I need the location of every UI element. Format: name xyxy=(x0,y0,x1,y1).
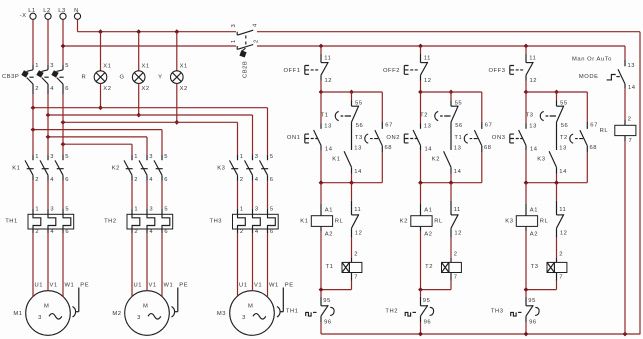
svg-text:U1: U1 xyxy=(239,283,248,289)
svg-text:3: 3 xyxy=(137,315,141,321)
svg-text:14: 14 xyxy=(628,85,636,91)
svg-text:2: 2 xyxy=(628,117,632,123)
svg-text:T2: T2 xyxy=(420,113,428,119)
svg-text:K1: K1 xyxy=(300,218,308,224)
svg-text:95: 95 xyxy=(423,298,431,304)
svg-text:Man Or AuTo: Man Or AuTo xyxy=(572,57,612,63)
svg-text:2: 2 xyxy=(454,252,458,258)
svg-text:T1: T1 xyxy=(321,113,329,119)
svg-text:X2: X2 xyxy=(180,86,188,92)
svg-text:PE: PE xyxy=(179,283,188,289)
svg-text:1: 1 xyxy=(35,154,39,160)
svg-text:K3: K3 xyxy=(537,156,545,162)
svg-text:6: 6 xyxy=(270,177,274,183)
svg-text:56: 56 xyxy=(356,123,364,129)
svg-text:11: 11 xyxy=(354,207,361,213)
svg-text:5: 5 xyxy=(164,207,168,213)
svg-text:2: 2 xyxy=(240,177,244,183)
svg-text:13: 13 xyxy=(324,124,332,130)
svg-text:A1: A1 xyxy=(325,207,333,213)
svg-text:V1: V1 xyxy=(50,283,58,289)
svg-text:K3: K3 xyxy=(217,166,225,172)
svg-text:A2: A2 xyxy=(530,232,538,238)
svg-text:4: 4 xyxy=(50,177,54,183)
svg-text:A2: A2 xyxy=(424,232,432,238)
svg-text:TH1: TH1 xyxy=(286,309,299,315)
svg-text:96: 96 xyxy=(424,320,432,326)
svg-text:ON1: ON1 xyxy=(287,135,301,141)
svg-text:12: 12 xyxy=(560,231,568,237)
svg-text:95: 95 xyxy=(528,298,536,304)
svg-text:1: 1 xyxy=(240,207,244,213)
svg-text:12: 12 xyxy=(424,78,432,84)
svg-text:11: 11 xyxy=(424,56,431,62)
svg-text:3: 3 xyxy=(50,63,54,69)
svg-text:CB3P: CB3P xyxy=(2,74,19,80)
svg-text:RL: RL xyxy=(540,218,549,224)
svg-text:67: 67 xyxy=(590,123,598,129)
svg-text:CB2B: CB2B xyxy=(242,61,248,78)
svg-text:2: 2 xyxy=(35,229,39,235)
svg-text:1: 1 xyxy=(134,207,138,213)
svg-text:12: 12 xyxy=(530,78,538,84)
svg-text:K2: K2 xyxy=(400,218,408,224)
svg-text:14: 14 xyxy=(354,169,362,175)
svg-text:A2: A2 xyxy=(325,232,333,238)
svg-text:11: 11 xyxy=(454,207,461,213)
svg-text:ON3: ON3 xyxy=(492,135,506,141)
svg-text:4: 4 xyxy=(149,229,153,235)
svg-text:U1: U1 xyxy=(35,283,44,289)
svg-text:3: 3 xyxy=(242,315,246,321)
svg-text:X1: X1 xyxy=(103,64,111,70)
svg-text:TH1: TH1 xyxy=(5,218,18,224)
svg-text:7: 7 xyxy=(629,138,633,144)
svg-text:11: 11 xyxy=(324,56,331,62)
svg-text:1: 1 xyxy=(240,154,244,160)
svg-text:N: N xyxy=(74,8,79,14)
svg-text:14: 14 xyxy=(530,147,538,153)
svg-text:3: 3 xyxy=(255,154,259,160)
svg-text:67: 67 xyxy=(485,123,493,129)
svg-text:2: 2 xyxy=(134,229,138,235)
svg-text:L2: L2 xyxy=(43,8,51,14)
svg-text:13: 13 xyxy=(424,124,432,130)
svg-text:12: 12 xyxy=(454,231,462,237)
svg-text:A1: A1 xyxy=(530,207,538,213)
svg-text:M: M xyxy=(44,304,49,310)
svg-text:68: 68 xyxy=(484,145,492,151)
svg-text:ON2: ON2 xyxy=(386,135,400,141)
svg-text:R: R xyxy=(82,75,87,81)
svg-text:U1: U1 xyxy=(134,283,143,289)
svg-text:2: 2 xyxy=(354,252,358,258)
svg-text:7: 7 xyxy=(559,275,563,281)
svg-text:1: 1 xyxy=(231,39,237,43)
svg-text:4: 4 xyxy=(252,23,258,27)
svg-text:OFF3: OFF3 xyxy=(488,68,505,74)
svg-text:7: 7 xyxy=(454,275,458,281)
svg-text:OFF1: OFF1 xyxy=(283,68,300,74)
svg-text:T3: T3 xyxy=(355,135,363,141)
svg-text:13: 13 xyxy=(529,124,537,130)
svg-text:14: 14 xyxy=(425,147,433,153)
svg-text:K2: K2 xyxy=(432,156,440,162)
svg-text:95: 95 xyxy=(323,298,331,304)
svg-text:X2: X2 xyxy=(142,86,150,92)
svg-text:2: 2 xyxy=(240,229,244,235)
svg-text:14: 14 xyxy=(325,147,333,153)
svg-text:1: 1 xyxy=(35,63,39,69)
svg-text:4: 4 xyxy=(255,229,259,235)
svg-text:6: 6 xyxy=(65,229,69,235)
svg-text:4: 4 xyxy=(50,229,54,235)
svg-text:V1: V1 xyxy=(254,283,262,289)
svg-text:TH2: TH2 xyxy=(104,218,117,224)
svg-text:2: 2 xyxy=(35,86,39,92)
svg-text:K1: K1 xyxy=(12,166,20,172)
svg-text:RL: RL xyxy=(335,218,344,224)
svg-text:13: 13 xyxy=(559,146,567,152)
svg-text:3: 3 xyxy=(149,154,153,160)
svg-text:RL: RL xyxy=(600,128,609,134)
svg-text:5: 5 xyxy=(65,207,69,213)
svg-text:1: 1 xyxy=(134,154,138,160)
svg-text:A1: A1 xyxy=(424,207,432,213)
svg-text:K1: K1 xyxy=(332,156,340,162)
svg-text:T1: T1 xyxy=(326,264,334,270)
svg-text:2: 2 xyxy=(559,252,563,258)
svg-text:5: 5 xyxy=(270,154,274,160)
svg-text:13: 13 xyxy=(628,63,636,69)
svg-text:5: 5 xyxy=(270,207,274,213)
svg-text:3: 3 xyxy=(50,154,54,160)
svg-text:6: 6 xyxy=(164,229,168,235)
svg-text:K3: K3 xyxy=(505,218,513,224)
svg-text:2: 2 xyxy=(254,39,260,43)
svg-text:68: 68 xyxy=(385,145,393,151)
svg-text:G: G xyxy=(119,75,124,81)
svg-text:6: 6 xyxy=(270,229,274,235)
svg-text:T2: T2 xyxy=(425,264,433,270)
svg-text:X1: X1 xyxy=(180,64,188,70)
svg-text:12: 12 xyxy=(355,231,363,237)
svg-text:OFF2: OFF2 xyxy=(383,68,400,74)
svg-text:K2: K2 xyxy=(112,166,120,172)
svg-text:Y: Y xyxy=(158,75,162,81)
svg-text:13: 13 xyxy=(354,146,362,152)
svg-text:2: 2 xyxy=(35,177,39,183)
svg-text:6: 6 xyxy=(65,177,69,183)
svg-text:5: 5 xyxy=(65,63,69,69)
svg-text:3: 3 xyxy=(50,207,54,213)
svg-text:PE: PE xyxy=(80,283,89,289)
svg-text:4: 4 xyxy=(149,177,153,183)
svg-text:M: M xyxy=(143,304,148,310)
svg-text:13: 13 xyxy=(454,146,462,152)
svg-text:L3: L3 xyxy=(58,8,66,14)
svg-text:55: 55 xyxy=(560,101,568,107)
svg-text:TH3: TH3 xyxy=(491,309,504,315)
svg-text:7: 7 xyxy=(354,275,358,281)
svg-text:14: 14 xyxy=(559,169,567,175)
svg-text:MODE: MODE xyxy=(579,74,599,80)
svg-text:X1: X1 xyxy=(142,64,150,70)
svg-text:12: 12 xyxy=(325,78,333,84)
svg-text:56: 56 xyxy=(455,123,463,129)
svg-text:6: 6 xyxy=(164,177,168,183)
svg-text:3: 3 xyxy=(38,315,42,321)
svg-text:M3: M3 xyxy=(217,311,226,317)
svg-text:11: 11 xyxy=(529,56,536,62)
svg-text:T1: T1 xyxy=(454,135,462,141)
svg-text:M: M xyxy=(248,304,253,310)
svg-text:3: 3 xyxy=(231,24,237,28)
svg-text:5: 5 xyxy=(65,154,69,160)
svg-text:55: 55 xyxy=(455,101,463,107)
svg-text:5: 5 xyxy=(164,154,168,160)
svg-text:M1: M1 xyxy=(13,311,22,317)
svg-text:6: 6 xyxy=(65,86,69,92)
svg-text:11: 11 xyxy=(559,207,566,213)
svg-text:14: 14 xyxy=(454,169,462,175)
svg-text:TH2: TH2 xyxy=(385,309,398,315)
svg-text:67: 67 xyxy=(385,123,393,129)
svg-text:W1: W1 xyxy=(269,283,279,289)
svg-text:4: 4 xyxy=(255,177,259,183)
svg-text:96: 96 xyxy=(529,320,537,326)
svg-text:-X: -X xyxy=(20,13,27,19)
svg-text:V1: V1 xyxy=(149,283,157,289)
svg-text:PE: PE xyxy=(285,283,294,289)
svg-text:96: 96 xyxy=(324,320,332,326)
svg-text:M2: M2 xyxy=(112,311,121,317)
svg-text:W1: W1 xyxy=(65,283,75,289)
svg-text:56: 56 xyxy=(561,123,569,129)
svg-text:X2: X2 xyxy=(103,86,111,92)
svg-text:68: 68 xyxy=(590,145,598,151)
svg-text:55: 55 xyxy=(355,101,363,107)
svg-text:2: 2 xyxy=(134,177,138,183)
svg-text:T3: T3 xyxy=(531,264,539,270)
svg-text:W1: W1 xyxy=(164,283,174,289)
svg-text:4: 4 xyxy=(50,86,54,92)
svg-text:T2: T2 xyxy=(560,135,568,141)
svg-text:T3: T3 xyxy=(526,113,534,119)
svg-text:1: 1 xyxy=(35,207,39,213)
svg-text:RL: RL xyxy=(434,218,443,224)
svg-text:L1: L1 xyxy=(28,8,36,14)
svg-text:3: 3 xyxy=(255,207,259,213)
svg-text:3: 3 xyxy=(149,207,153,213)
svg-text:TH3: TH3 xyxy=(209,218,222,224)
